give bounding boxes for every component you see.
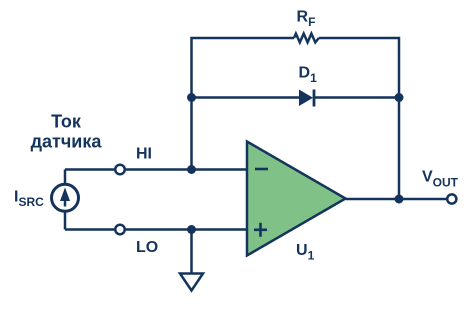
svg-text:Ток: Ток [51, 112, 82, 132]
svg-text:датчика: датчика [31, 132, 103, 152]
wire: ground stub [190, 230, 193, 274]
svg-text:RF: RF [297, 9, 316, 30]
node: junction dot LO/ground [187, 225, 196, 234]
wire: diode branch right segment [314, 96, 399, 99]
terminal VOUT open circle [447, 194, 456, 203]
wire: diode branch left segment [192, 96, 301, 99]
op-amp non-inverting input plus sign [254, 223, 267, 237]
svg-text:D1: D1 [299, 65, 318, 86]
terminal LO open circle [115, 225, 125, 235]
node: junction dot HI/feedback [187, 165, 196, 174]
wire: current source top stub [64, 170, 67, 186]
svg-text:HI: HI [136, 146, 152, 163]
wire: HI line to inverting input [65, 168, 247, 171]
node: junction dot diode-right [395, 93, 404, 102]
current source ISRC arrow [60, 188, 70, 207]
op-amp inverting input minus sign [255, 168, 268, 171]
terminal HI open circle [115, 165, 125, 175]
diode D1 symbol [299, 90, 314, 107]
current source ISRC circle [52, 184, 79, 211]
node: junction dot output [395, 195, 404, 204]
ground symbol [180, 274, 203, 291]
svg-text:ISRC: ISRC [14, 189, 44, 210]
node: junction dot diode-left [187, 93, 196, 102]
wire: LO line to non-inverting input [65, 228, 247, 231]
wire: output segment [346, 198, 447, 201]
svg-text:U1: U1 [296, 242, 315, 263]
op-amp U1 triangle [247, 142, 346, 256]
svg-text:VOUT: VOUT [422, 169, 459, 190]
wire: feedback top segment right of RF [319, 38, 399, 199]
svg-text:LO: LO [136, 239, 158, 256]
wire: current source bottom stub [64, 211, 67, 230]
wire: feedback top segment left of RF [192, 38, 295, 170]
resistor RF zigzag [294, 34, 319, 43]
